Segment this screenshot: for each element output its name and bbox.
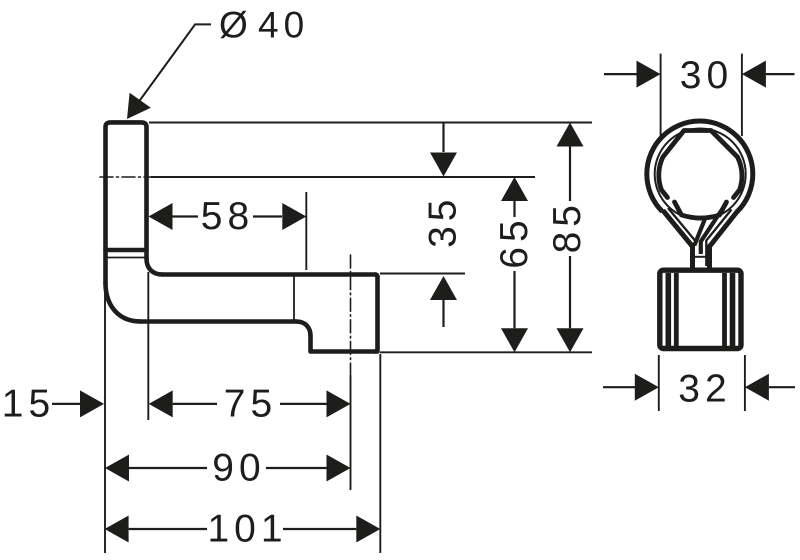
line right xyxy=(253,215,282,217)
tail left xyxy=(604,73,637,75)
outer fillet arm-to-bar xyxy=(106,283,141,322)
arrow down xyxy=(430,153,457,177)
line right xyxy=(280,403,327,405)
arrow up xyxy=(501,177,528,201)
V strand A xyxy=(694,218,705,246)
svg-text:101: 101 xyxy=(207,508,287,551)
ring outer circle (teardrop, bottom quarter open) xyxy=(647,121,753,211)
inner hex profile main xyxy=(659,131,742,198)
svg-text:65: 65 xyxy=(493,215,536,268)
ext line left xyxy=(658,355,660,411)
arrow right xyxy=(80,390,104,417)
arrow down xyxy=(501,328,528,352)
line lower xyxy=(569,256,571,328)
V inner thin right xyxy=(706,210,731,267)
base inner line B xyxy=(674,273,679,346)
top extension line y=122.5 xyxy=(149,122,592,124)
block fillet to arm bottom xyxy=(296,322,311,337)
V inner thin left xyxy=(668,208,695,241)
svg-text:Ø: Ø xyxy=(219,5,248,46)
tail left xyxy=(603,386,635,388)
arm/block junction edge xyxy=(293,277,295,319)
ext line x=380.3 right xyxy=(379,354,381,553)
V outer right xyxy=(710,211,739,268)
ext line right xyxy=(744,355,746,411)
line upper xyxy=(513,201,515,217)
arrow right xyxy=(327,455,351,482)
arrow right-pointing xyxy=(637,61,661,88)
arrow right xyxy=(356,516,380,543)
svg-text:30: 30 xyxy=(680,54,733,97)
ext line right xyxy=(741,54,743,136)
svg-text:32: 32 xyxy=(678,367,731,410)
svg-text:58: 58 xyxy=(201,195,254,238)
arrow left-pointing xyxy=(745,374,769,401)
arm+block top edge xyxy=(163,272,376,277)
arrow left xyxy=(149,390,173,417)
arrow left xyxy=(149,203,173,230)
lower stub xyxy=(442,300,444,327)
svg-text:40: 40 xyxy=(258,5,309,46)
line left xyxy=(173,403,217,405)
svg-text:75: 75 xyxy=(224,382,277,425)
stem crossbar xyxy=(694,256,708,258)
base block outer xyxy=(660,270,741,348)
line left xyxy=(173,215,199,217)
arrow left xyxy=(105,455,129,482)
arrow up xyxy=(430,276,457,300)
arrow up xyxy=(557,123,584,147)
arrow right xyxy=(327,390,351,417)
inner hex profile bottom with tips xyxy=(675,202,727,218)
tail right xyxy=(766,73,795,75)
block bottom-right corner xyxy=(375,349,377,351)
base inner line C xyxy=(722,273,727,346)
line right xyxy=(266,467,327,469)
arrow right-pointing xyxy=(635,374,659,401)
thick crossbar in bar xyxy=(106,248,147,253)
base inner line A xyxy=(665,273,671,346)
tail right xyxy=(769,386,795,388)
line left xyxy=(129,467,207,469)
ext line left xyxy=(660,54,662,136)
line upper xyxy=(569,147,571,202)
line right xyxy=(283,528,356,530)
ext line x=350.5 lower xyxy=(350,375,352,490)
V outer left xyxy=(663,211,693,268)
svg-text:15: 15 xyxy=(2,382,55,425)
svg-text:35: 35 xyxy=(421,195,464,248)
ext line x=306.3 for 58 xyxy=(305,192,307,270)
arrow right xyxy=(282,203,306,230)
V strand B with tail xyxy=(701,204,726,255)
arrow down xyxy=(557,328,584,352)
leader arrowhead xyxy=(127,93,151,119)
centerline extension y=177 xyxy=(151,176,535,178)
base inner line D xyxy=(730,273,736,346)
thin tangent line in bar xyxy=(106,257,147,259)
arm bottom edge xyxy=(141,319,297,324)
bar centerline dash-dot xyxy=(100,176,152,178)
block bottom edge xyxy=(311,336,378,352)
line lower xyxy=(513,271,515,328)
ext line x=148.3 for 75 xyxy=(147,272,149,420)
line left xyxy=(129,528,207,530)
arrow left-pointing xyxy=(742,61,766,88)
tail line xyxy=(52,403,80,405)
block top-right corner xyxy=(375,275,377,277)
leader line xyxy=(135,24,211,107)
ext line x=105 left xyxy=(104,284,106,553)
block centerline dash-dot xyxy=(350,255,352,375)
ring inner thin circle xyxy=(655,129,746,220)
arm-top extension right y=273.5 xyxy=(380,273,465,275)
inner fillet bar-to-arm xyxy=(147,259,163,275)
wall-plate bar outline (thick) xyxy=(106,122,147,283)
upper stub xyxy=(442,123,444,153)
svg-text:85: 85 xyxy=(546,200,589,253)
svg-text:90: 90 xyxy=(212,447,265,490)
block-bottom extension right y=352.3 xyxy=(380,351,592,353)
arrow left xyxy=(105,516,129,543)
block right edge xyxy=(375,277,380,349)
